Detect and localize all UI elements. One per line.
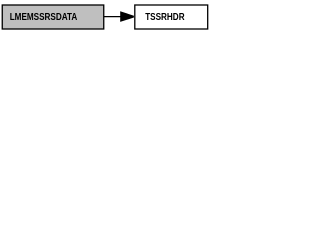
wire edge line	[104, 16, 121, 18]
node LMEMSSRSDATA box	[2, 5, 104, 29]
arrowhead	[120, 11, 134, 22]
node TSSRHDR box	[135, 5, 208, 29]
svg-text:TSSRHDR: TSSRHDR	[145, 12, 185, 23]
svg-text:LMEMSSRSDATA: LMEMSSRSDATA	[10, 12, 78, 23]
